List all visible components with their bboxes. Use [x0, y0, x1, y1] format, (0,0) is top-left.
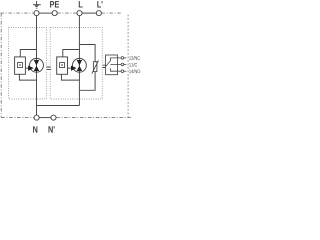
wire bottom rail	[37, 105, 80, 107]
wire main line module 1 (c1 down to N)	[36, 16, 38, 115]
terminal c1 earth	[34, 11, 39, 16]
label N'	[48, 126, 54, 132]
terminal PE	[52, 11, 57, 16]
label 14/NO	[129, 69, 140, 73]
spark gap F2 circle	[72, 58, 86, 72]
wire box1 top to main line	[20, 50, 36, 57]
varistor rect	[93, 62, 97, 72]
label L'	[97, 1, 102, 7]
wire through spark gap F2	[78, 58, 80, 72]
wire main line module 2 (L down to rail)	[78, 16, 80, 106]
earth symbol arrowhead	[34, 5, 39, 7]
indicator dot 2	[61, 64, 63, 66]
module 2 dotted outline	[50, 28, 102, 100]
wire varistor return	[79, 72, 95, 91]
indicator square 1	[18, 63, 23, 68]
spark gap F1 circle	[30, 58, 44, 72]
plug connector bars between modules	[47, 67, 52, 69]
earth symbol bar	[33, 4, 41, 6]
spark gap F1 bottom triangle	[34, 66, 39, 71]
FM stub 11	[124, 63, 127, 65]
indicator square 2	[60, 63, 65, 68]
indicator dot 1	[19, 64, 21, 66]
terminal N	[34, 115, 39, 120]
FM wire 12/NC	[118, 57, 122, 59]
FM contact arm	[106, 60, 111, 66]
earth symbol stem	[36, 1, 38, 5]
wire through spark gap F1	[36, 58, 38, 72]
monitoring disconnector box 1	[15, 57, 26, 74]
label N	[33, 126, 37, 132]
spark gap F2 bottom triangle	[77, 66, 82, 71]
wire trigger 2	[68, 67, 72, 69]
plug connector bars to FM contact	[103, 65, 106, 67]
enclosure border left dash-dot	[0, 13, 2, 118]
wire c1-c2 top link	[39, 12, 52, 14]
FM stub 14	[124, 70, 127, 72]
wire box2 bottom to main line	[62, 74, 80, 80]
spark gap F1 top triangle	[34, 60, 39, 65]
module 1 dotted outline	[9, 28, 47, 100]
enclosure border top dash-dot	[1, 12, 123, 14]
wire box1 bottom to main line	[19, 74, 36, 80]
label PE	[50, 1, 59, 7]
terminal L'	[96, 11, 101, 16]
FM terminal 14	[121, 70, 124, 73]
FM stub 12	[124, 57, 127, 59]
FM wire 11/C	[118, 63, 122, 65]
FM contact NO line	[110, 68, 117, 71]
monitoring disconnector box 2	[57, 57, 68, 74]
wire trigger 1	[25, 67, 28, 69]
enclosure border right dashed	[127, 15, 129, 118]
spark gap F2 trigger triangle	[71, 65, 77, 70]
enclosure border bottom dash-dot	[1, 117, 132, 119]
remote signalling contact FM box	[106, 55, 118, 75]
label L	[79, 1, 83, 7]
spark gap F1 trigger triangle	[28, 65, 34, 70]
wire N-N' bottom link	[39, 117, 51, 119]
terminal N'	[51, 115, 56, 120]
varistor diagonal	[92, 60, 99, 73]
label 11/C	[129, 63, 137, 67]
earth symbol lower dash	[36, 7, 38, 9]
FM terminal 11	[121, 63, 124, 66]
wire varistor branch	[79, 45, 95, 62]
wire L-L' top link	[82, 12, 96, 14]
FM terminal 12	[121, 57, 124, 60]
spark gap F2 top triangle	[77, 60, 82, 65]
FM contact C line	[110, 63, 117, 65]
FM wire 14/NO	[118, 70, 122, 72]
wire box2 top to main line	[63, 50, 80, 57]
terminal L	[77, 11, 82, 16]
label 12/NC	[129, 56, 140, 60]
FM contact NC line	[110, 58, 117, 61]
